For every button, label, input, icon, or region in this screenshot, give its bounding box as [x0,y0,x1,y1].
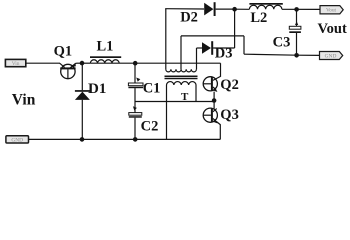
transistor Q3 [203,101,220,140]
svg-text:T: T [181,91,189,103]
node L2/C3 [294,7,299,12]
output ground rail [244,54,320,55]
capacitor C1 [128,63,143,101]
inductor L2 [249,3,282,9]
wire main to Q2 collector [220,63,222,77]
svg-text:GND: GND [11,138,23,144]
GND port flag top [320,52,343,60]
svg-text:L1: L1 [97,38,114,54]
svg-text:Vin: Vin [12,61,20,67]
svg-text:Q1: Q1 [54,43,73,59]
transistor Q2 [203,76,220,100]
bottom ground rail [29,138,221,140]
node C2 bottom [133,137,138,142]
diode D2 [204,2,234,16]
Vout port flag [320,6,343,14]
center tap link corner down [243,36,245,54]
svg-text:Vout: Vout [318,21,347,37]
transformer T bottom winding [167,82,197,85]
svg-text:C3: C3 [273,34,291,50]
node D2/L2 [232,7,237,12]
svg-text:Vin: Vin [12,92,36,109]
svg-text:D2: D2 [180,10,198,26]
transformer T top winding [166,69,197,72]
wire Vin to Q1 [26,62,60,64]
svg-text:D1: D1 [88,81,106,97]
inductor L1 [90,56,121,63]
svg-text:Q3: Q3 [220,107,239,123]
wire D2/L2 node down to D3 cathode [234,9,236,48]
diode D3 [197,41,235,55]
node D1 bottom [80,137,85,142]
wire L2 to Vout node [282,8,320,10]
wire Q1 to L1 [76,62,90,64]
capacitor C3 [289,9,301,55]
main wire L1 to Q2 branch [90,62,220,64]
node after Q1 [80,61,85,66]
svg-text:C2: C2 [141,119,159,135]
top rail to D2 [165,8,204,10]
center tap link wire [181,35,244,37]
wire C1/C2 node to Q2/Q3 node [135,101,214,103]
svg-text:D3: D3 [215,45,233,61]
svg-text:Vout: Vout [326,8,337,14]
svg-text:L2: L2 [250,10,267,26]
svg-text:GND: GND [325,53,337,59]
transformer T center tap [180,36,182,69]
transformer T top right terminal [196,48,198,69]
svg-text:Q2: Q2 [220,77,239,93]
node L1/C1 [133,61,138,66]
node Q2/Q3 [212,98,217,103]
svg-text:C1: C1 [143,80,161,96]
transformer T primary top left terminal [165,9,167,70]
capacitor C2 [129,102,142,140]
transistor Q1 [60,63,77,79]
transformer T bottom left terminal to ground rail [166,85,168,139]
GND port flag bottom left [6,136,29,144]
transformer T bottom right terminal [195,85,197,102]
diode D1 [75,63,90,139]
wire node to L2 [235,8,250,10]
node C3 bottom [294,53,299,58]
Vin port flag [5,59,25,67]
transformer T core [165,76,198,78]
